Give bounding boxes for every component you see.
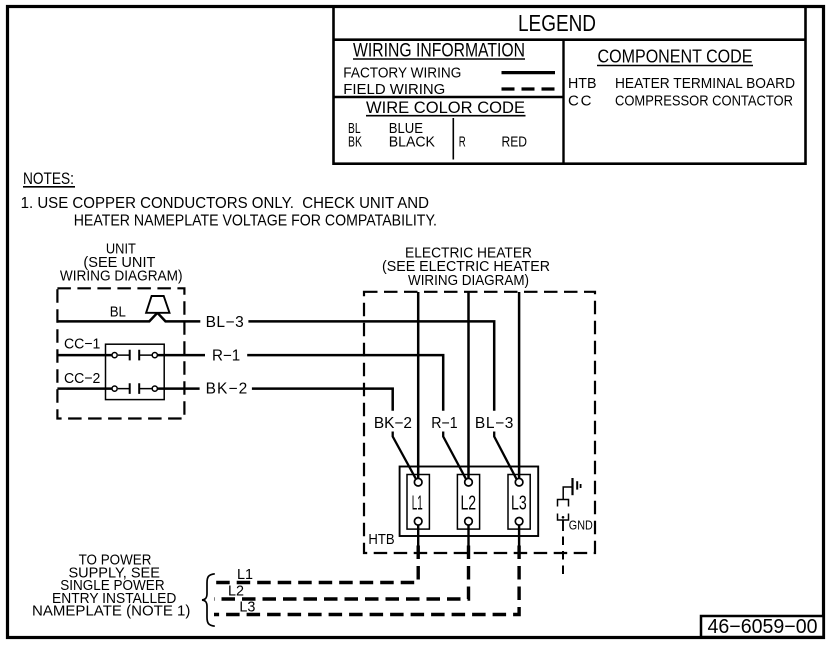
svg-text:BK−2: BK−2 — [206, 381, 248, 398]
svg-text:NOTES:: NOTES: — [23, 170, 74, 188]
svg-text:CC: CC — [568, 93, 592, 110]
svg-text:GND: GND — [569, 518, 593, 533]
svg-text:HEATER NAMEPLATE VOLTAGE FOR C: HEATER NAMEPLATE VOLTAGE FOR COMPATABILI… — [74, 213, 437, 230]
svg-text:NAMEPLATE (NOTE 1): NAMEPLATE (NOTE 1) — [32, 603, 190, 620]
svg-text:L1: L1 — [237, 566, 253, 583]
svg-text:L2: L2 — [228, 582, 244, 599]
svg-text:HEATER TERMINAL BOARD: HEATER TERMINAL BOARD — [615, 75, 795, 92]
svg-text:FACTORY WIRING: FACTORY WIRING — [343, 65, 461, 82]
svg-text:L3: L3 — [511, 493, 527, 515]
svg-text:L2: L2 — [460, 493, 476, 515]
svg-text:46−6059−00: 46−6059−00 — [708, 616, 818, 638]
svg-text:BL−3: BL−3 — [475, 415, 514, 432]
svg-text:FIELD WIRING: FIELD WIRING — [343, 81, 445, 98]
svg-text:WIRING DIAGRAM): WIRING DIAGRAM) — [408, 272, 529, 289]
svg-text:R: R — [459, 134, 466, 151]
svg-text:HTB: HTB — [368, 531, 394, 548]
svg-text:L3: L3 — [239, 598, 255, 615]
svg-text:CC−1: CC−1 — [64, 336, 100, 353]
svg-text:WIRE COLOR CODE: WIRE COLOR CODE — [366, 99, 525, 117]
svg-text:CC−2: CC−2 — [64, 370, 100, 387]
svg-text:BK−2: BK−2 — [374, 415, 412, 432]
svg-text:1. USE COPPER CONDUCTORS ONLY.: 1. USE COPPER CONDUCTORS ONLY. CHECK UNI… — [21, 195, 429, 212]
svg-text:BK: BK — [348, 134, 362, 151]
svg-text:COMPRESSOR CONTACTOR: COMPRESSOR CONTACTOR — [615, 93, 793, 110]
svg-text:R−1: R−1 — [212, 348, 240, 365]
svg-text:HTB: HTB — [568, 75, 597, 92]
svg-text:BL: BL — [110, 303, 126, 320]
svg-text:LEGEND: LEGEND — [518, 10, 596, 36]
svg-text:R−1: R−1 — [431, 415, 457, 432]
svg-text:L1: L1 — [412, 493, 423, 515]
svg-text:RED: RED — [502, 134, 528, 151]
svg-text:BL−3: BL−3 — [206, 314, 244, 331]
svg-text:COMPONENT CODE: COMPONENT CODE — [598, 47, 753, 67]
svg-text:BLACK: BLACK — [389, 134, 435, 151]
svg-text:WIRING DIAGRAM): WIRING DIAGRAM) — [60, 268, 183, 285]
